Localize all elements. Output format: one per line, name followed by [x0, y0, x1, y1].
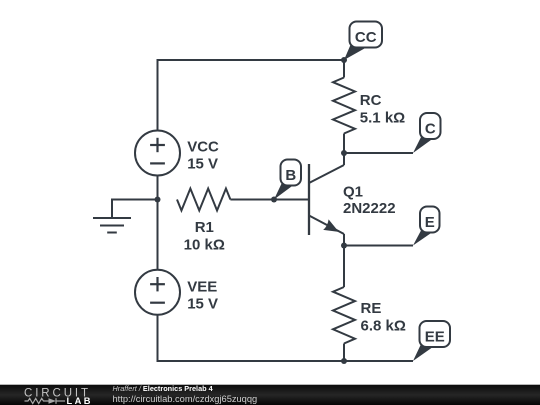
svg-text:http://circuitlab.com/czdxgj65: http://circuitlab.com/czdxgj65zuqqg	[113, 394, 258, 404]
label RC 5.1 kOhm	[360, 92, 405, 126]
junction C node	[341, 150, 347, 156]
resistor RE	[333, 287, 355, 344]
svg-text:10 kΩ: 10 kΩ	[184, 236, 225, 253]
resistor RC	[333, 78, 355, 134]
junction E node	[341, 243, 347, 249]
wire CC to RC	[343, 60, 345, 78]
svg-text:B: B	[285, 167, 296, 184]
svg-text:VEE: VEE	[187, 279, 217, 296]
logo resistor and diode	[25, 398, 66, 404]
wire VCC to VEE	[157, 176, 159, 270]
svg-text:15 V: 15 V	[187, 155, 218, 172]
label VCC 15 V	[187, 139, 219, 173]
ground	[93, 218, 131, 233]
svg-text:RC: RC	[360, 92, 382, 109]
svg-text:EE: EE	[425, 329, 445, 346]
svg-text:6.8 kΩ: 6.8 kΩ	[361, 318, 406, 335]
voltage source VEE	[135, 270, 180, 315]
wire E node to label	[344, 245, 413, 247]
wire top rail VCC to CC	[158, 60, 345, 131]
voltage source VCC	[135, 131, 180, 176]
junction bottom node	[341, 358, 347, 364]
svg-text:5.1 kΩ: 5.1 kΩ	[360, 109, 405, 126]
svg-text:E: E	[425, 214, 435, 231]
label VEE 15 V	[187, 279, 218, 313]
svg-text:Hraffert / Electronics Prelab: Hraffert / Electronics Prelab 4	[113, 384, 214, 393]
resistor R1	[177, 189, 230, 211]
svg-text:RE: RE	[361, 300, 382, 317]
wire RC to C node	[343, 134, 345, 154]
label RE 6.8 kOhm	[361, 300, 406, 335]
wire bottom rail	[158, 315, 414, 361]
node label EE	[413, 321, 450, 361]
label R1 10 kOhm	[184, 219, 225, 253]
junction base node	[271, 197, 277, 203]
svg-text:LAB: LAB	[67, 396, 93, 405]
svg-text:Q1: Q1	[343, 184, 363, 201]
svg-text:C: C	[425, 121, 436, 138]
svg-text:2N2222: 2N2222	[343, 200, 396, 217]
footer title line	[113, 384, 214, 393]
svg-text:CC: CC	[355, 29, 377, 46]
node label CC	[344, 22, 382, 61]
wire to ground	[112, 200, 158, 219]
node label C	[413, 113, 441, 153]
transistor Q1	[309, 153, 344, 246]
svg-text:15 V: 15 V	[187, 295, 218, 312]
wire base row	[230, 199, 308, 201]
svg-text:VCC: VCC	[187, 139, 219, 156]
node label E	[413, 207, 440, 246]
junction CC node	[341, 57, 347, 63]
wire C node to label	[344, 152, 413, 154]
junction left node	[155, 197, 161, 203]
node label B	[274, 160, 301, 200]
svg-text:R1: R1	[195, 219, 214, 236]
wire RE to bottom rail	[343, 344, 345, 362]
label Q1 2N2222	[343, 184, 396, 217]
wire E node to RE	[343, 246, 345, 288]
